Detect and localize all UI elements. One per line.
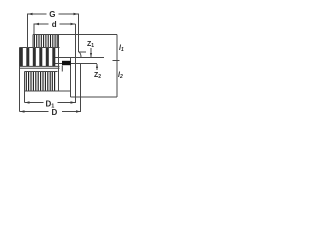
svg-text:G: G (49, 10, 55, 19)
dimension G (28, 14, 79, 52)
top face line (33, 34, 117, 36)
dimension D (20, 111, 82, 113)
D1 arrows (25, 101, 30, 103)
D extension left (19, 48, 21, 112)
svg-text:l1: l1 (119, 45, 124, 53)
socket channel lines (53, 58, 104, 64)
svg-text:Z2: Z2 (94, 72, 101, 80)
tick between l1 and l2 (113, 60, 120, 62)
Z2 arrow stem (96, 64, 98, 70)
body upper band edges (33, 35, 59, 92)
Z2 arrow head up (96, 64, 98, 69)
d arrows (35, 23, 40, 25)
svg-text:l2: l2 (118, 72, 123, 80)
dimension line l overall (116, 35, 118, 98)
right body edge (70, 58, 72, 98)
labels (46, 10, 124, 117)
step tick at thread end (79, 51, 87, 53)
dimension d (34, 24, 76, 35)
socket outer edge right (80, 64, 82, 98)
D extension right (80, 97, 82, 112)
solid section blob (62, 61, 71, 65)
middle band outline (20, 48, 60, 69)
bottom spigot face (71, 96, 118, 98)
lower band hatch (26, 72, 54, 91)
arrowheads (20, 13, 98, 113)
lower band outline (25, 72, 71, 92)
upper band hatch (34, 35, 57, 47)
thread runout hook (79, 52, 81, 57)
extension line d right / D1 right (75, 24, 77, 103)
socket inner wall stub (61, 66, 63, 72)
dimension D1 (25, 102, 76, 104)
svg-text:d: d (52, 20, 57, 29)
svg-text:Z1: Z1 (87, 41, 94, 49)
G arrows (28, 13, 33, 15)
Z1 arrow head down (90, 53, 92, 58)
middle band knurl bars (20, 48, 56, 66)
Z1 arrow stem (90, 48, 92, 57)
D1 extension left (24, 72, 26, 103)
D arrows (20, 110, 25, 112)
svg-text:D: D (52, 108, 58, 117)
